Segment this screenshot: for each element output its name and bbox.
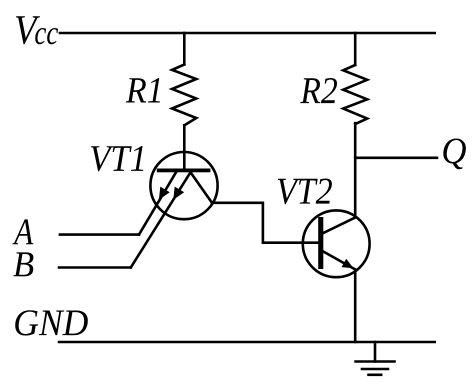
- wire VT1 collector: [191, 172, 213, 203]
- wire VT2 emitter: [323, 252, 355, 270]
- resistor R2: [343, 65, 367, 124]
- label A: [12, 219, 33, 244]
- label R1: [126, 78, 160, 103]
- ground symbol stub: [374, 342, 377, 362]
- wire R2 top lead: [354, 33, 357, 65]
- wire input A: [60, 233, 139, 236]
- wire R1 top lead: [183, 33, 186, 64]
- wire VT1 emitter 2: [131, 172, 191, 267]
- label cc: [35, 28, 58, 44]
- wire R1 bottom lead to VT1 base: [183, 125, 186, 170]
- label VT2: [278, 179, 332, 205]
- label GND: [15, 310, 88, 335]
- transistor VT2 base bar: [318, 217, 323, 269]
- wire VT1 emitter 1: [139, 172, 176, 234]
- label Q: [443, 139, 466, 170]
- label V: [16, 16, 40, 44]
- transistor VT1 emitter-1 arrowhead: [159, 187, 170, 200]
- node Q junction / output wire: [355, 157, 437, 160]
- transistor VT1 circle: [150, 152, 217, 219]
- wire VT2 collector: [323, 217, 355, 233]
- ground symbol bar 2: [362, 368, 388, 371]
- transistor VT2 emitter arrowhead: [342, 259, 354, 269]
- transistor VT2 circle: [303, 210, 370, 277]
- transistor VT1 base bar: [157, 169, 211, 173]
- ground symbol bar 1: [356, 360, 395, 363]
- GND rail: [59, 341, 435, 344]
- wire VT2 emitter to GND rail: [354, 270, 357, 343]
- wire input B: [59, 266, 131, 269]
- transistor VT1 emitter-2 arrowhead: [173, 187, 184, 200]
- wire VT1 collector to VT2 base: [212, 203, 318, 243]
- ground symbol bar 3: [369, 373, 382, 376]
- wire R2 bottom lead to VT2 collector: [354, 123, 357, 217]
- Vcc rail: [60, 32, 435, 35]
- label R2: [300, 78, 337, 103]
- label VT1: [91, 146, 143, 171]
- resistor R1: [172, 65, 196, 126]
- label B: [13, 252, 33, 276]
